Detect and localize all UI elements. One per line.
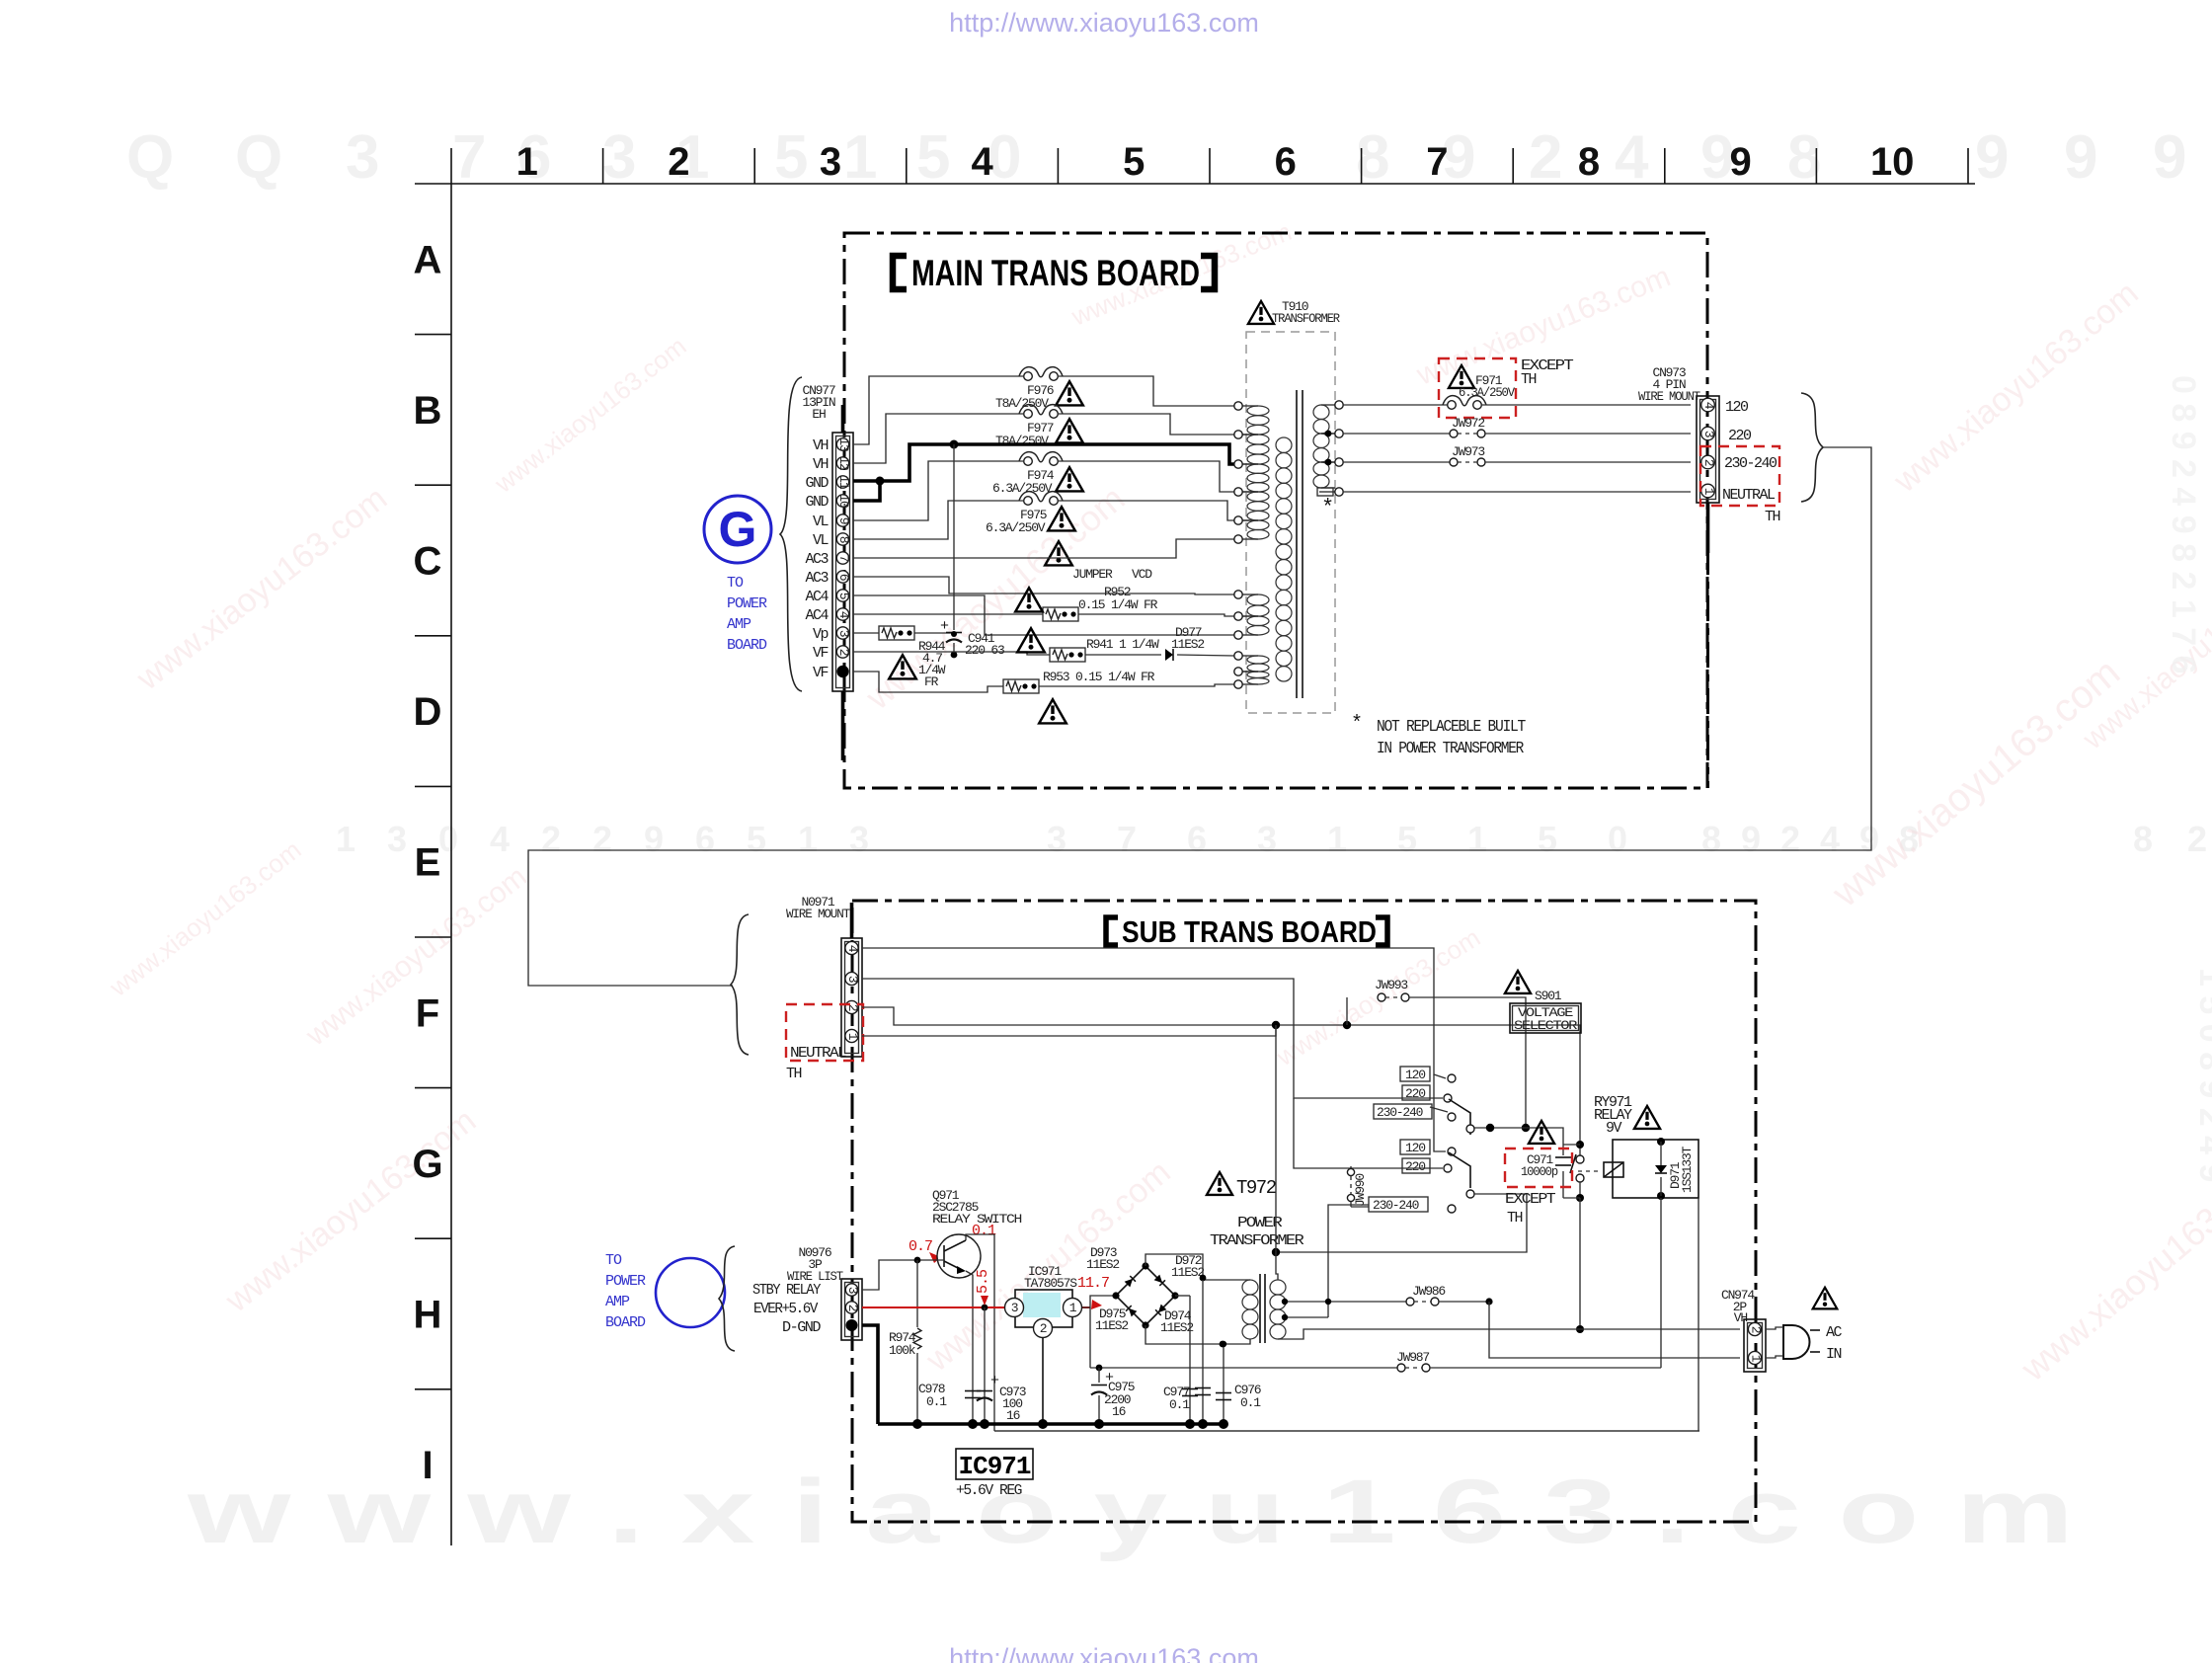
- svg-text:12: 12: [836, 456, 851, 470]
- resistor R941 and diode D977: [853, 652, 1050, 655]
- fuse F976: [1024, 372, 1033, 381]
- svg-text:0.7: 0.7: [908, 1238, 932, 1255]
- svg-text:3: 3: [602, 123, 636, 192]
- svg-text:VL: VL: [813, 532, 829, 549]
- jumper JW972 on 220 line: [1343, 433, 1450, 435]
- wire IC971 pin1 branch down: [1089, 1307, 1091, 1368]
- svg-text:AC4: AC4: [805, 589, 829, 605]
- svg-text:SELECTOR: SELECTOR: [1514, 1018, 1578, 1033]
- fuse F975: [1024, 497, 1033, 506]
- svg-text:120: 120: [1405, 1141, 1425, 1155]
- svg-text:0.15 1/4W FR: 0.15 1/4W FR: [1078, 597, 1158, 612]
- ruler top line: [415, 183, 1975, 185]
- svg-text:C: C: [414, 540, 442, 584]
- svg-text:*: *: [1351, 713, 1363, 736]
- svg-text:AC3: AC3: [805, 551, 829, 568]
- wire IC971 pin1 to bridge: [1082, 1296, 1114, 1307]
- svg-text:GND: GND: [805, 494, 829, 511]
- wire group2 common down: [1276, 1194, 1527, 1252]
- faint vertical digits right edge: [2165, 375, 2202, 673]
- svg-text:IN: IN: [1826, 1346, 1842, 1363]
- svg-text:0: 0: [1608, 819, 1627, 859]
- capacitor C973: [984, 1307, 986, 1424]
- svg-text:AMP: AMP: [605, 1294, 630, 1310]
- svg-text:G: G: [719, 502, 757, 557]
- transformer T910 label: [1248, 301, 1274, 324]
- svg-text:1 5 0 8 9 2 4 9: 1 5 0 8 9 2 4 9: [2192, 968, 2212, 1182]
- watermark pink diagonals: [129, 480, 394, 698]
- svg-text:1: 1: [798, 819, 818, 859]
- svg-text:+5.6V REG: +5.6V REG: [956, 1482, 1022, 1499]
- red wire ever5.6: [862, 1307, 1005, 1308]
- svg-text:JW973: JW973: [1452, 444, 1484, 459]
- svg-text:9: 9: [1729, 140, 1751, 184]
- ruler column ticks: [450, 148, 452, 184]
- svg-text:2: 2: [836, 649, 851, 656]
- svg-text:3: 3: [387, 819, 407, 859]
- relay contact: [1579, 1153, 1581, 1155]
- svg-text:5: 5: [1123, 140, 1145, 184]
- svg-text:JW990: JW990: [1353, 1174, 1368, 1207]
- svg-text:3: 3: [1011, 1301, 1018, 1315]
- wire neutral line: [1343, 491, 1691, 493]
- wire bridge top to T972: [1145, 1254, 1250, 1280]
- svg-text:2: 2: [1040, 1321, 1047, 1336]
- svg-text:9: 9: [836, 517, 851, 524]
- svg-text:3: 3: [845, 1287, 860, 1294]
- wire pin12 to F977 to T910: [853, 414, 1024, 463]
- svg-text:TO: TO: [727, 575, 744, 592]
- svg-text:8: 8: [2133, 819, 2153, 859]
- svg-text:H: H: [414, 1294, 442, 1337]
- node circle to power amp: [656, 1258, 725, 1327]
- svg-text:6: 6: [1275, 140, 1297, 184]
- T910 internal fuse: [1317, 488, 1333, 496]
- svg-text:R941 1 1/4W: R941 1 1/4W: [1086, 637, 1159, 652]
- svg-text:Vp: Vp: [813, 626, 829, 643]
- fuse F971 red box: [1439, 358, 1516, 418]
- svg-text:0.1: 0.1: [926, 1394, 947, 1409]
- svg-text:POWER: POWER: [605, 1273, 646, 1290]
- selector group2 wiper: [1449, 1152, 1470, 1188]
- svg-text:8: 8: [1701, 819, 1721, 859]
- T910 primary left winding groups: [1247, 406, 1269, 416]
- node G to power amp board: [704, 496, 771, 563]
- svg-text:11.7: 11.7: [1077, 1275, 1109, 1292]
- connector CN974 body: [1744, 1319, 1766, 1372]
- wire pin13 to F976 to T910: [853, 376, 1024, 444]
- svg-text:11ES2: 11ES2: [1086, 1257, 1119, 1272]
- wire relay return: [994, 1198, 1698, 1431]
- S901 voltage selector label: [1505, 971, 1531, 993]
- main board right edge bold segment below CN973: [1706, 503, 1709, 788]
- svg-text:VF: VF: [813, 645, 829, 662]
- svg-text:5: 5: [774, 123, 808, 192]
- sub trans board boundary box: [852, 901, 1756, 1522]
- svg-text:STBY RELAY: STBY RELAY: [752, 1282, 821, 1299]
- transistor Q971: [937, 1234, 981, 1278]
- svg-text:11ES2: 11ES2: [1160, 1320, 1193, 1335]
- selector group1 wiper: [1449, 1099, 1470, 1135]
- svg-text:7: 7: [1117, 819, 1137, 859]
- svg-text:VH: VH: [813, 456, 829, 473]
- svg-text:D-GND: D-GND: [782, 1319, 822, 1336]
- svg-text:3: 3: [820, 140, 841, 184]
- svg-text:http://www.xiaoyu163.com: http://www.xiaoyu163.com: [949, 8, 1259, 38]
- fuse F977: [1024, 410, 1033, 419]
- IC971 block label: [956, 1449, 1033, 1479]
- sub board title bracket right: [1376, 917, 1387, 945]
- svg-text:10: 10: [836, 494, 851, 508]
- svg-text:7: 7: [1426, 140, 1448, 184]
- svg-text:NOT REPLACEBLE BUILT: NOT REPLACEBLE BUILT: [1377, 718, 1526, 737]
- svg-text:0 8 9 2 4 9 8 2 1 7 6: 0 8 9 2 4 9 8 2 1 7 6: [2165, 375, 2202, 673]
- svg-text:E: E: [415, 841, 441, 885]
- svg-text:AC3: AC3: [805, 570, 829, 587]
- svg-text:3: 3: [1701, 431, 1716, 437]
- svg-text:4: 4: [971, 140, 993, 184]
- main board title bracket left: [893, 256, 907, 289]
- svg-text:SUB TRANS BOARD: SUB TRANS BOARD: [1122, 914, 1377, 949]
- svg-text:2: 2: [1529, 123, 1562, 192]
- svg-text:http://www.xiaoyu163.com: http://www.xiaoyu163.com: [949, 1643, 1259, 1663]
- connector CN977 pins: [836, 438, 848, 450]
- svg-text:1: 1: [843, 123, 877, 192]
- svg-text:NEUTRAL: NEUTRAL: [1722, 487, 1776, 504]
- svg-text:0.1: 0.1: [1169, 1397, 1190, 1412]
- svg-text:R953 0.15 1/4W FR: R953 0.15 1/4W FR: [1043, 670, 1155, 684]
- svg-text:JUMPER: JUMPER: [1072, 567, 1113, 582]
- svg-text:3: 3: [836, 630, 851, 637]
- wire pin9 to F974 to T910: [853, 461, 1024, 520]
- svg-text:230-240: 230-240: [1373, 1198, 1419, 1213]
- diode D971: [1660, 1142, 1662, 1165]
- wire IC971 pin2 down: [1042, 1338, 1044, 1424]
- svg-text:120: 120: [1405, 1068, 1425, 1082]
- wire pin8 to F975 to T910: [853, 501, 1024, 539]
- jumper JW987: [1090, 1367, 1397, 1369]
- wire main to sub connection: [528, 447, 1871, 986]
- svg-text:B: B: [414, 389, 442, 433]
- svg-text:JW972: JW972: [1452, 416, 1484, 431]
- svg-text:6: 6: [836, 574, 851, 581]
- svg-text:9: 9: [2064, 123, 2097, 192]
- wire JW986 to CN974 pin1: [1489, 1302, 1740, 1358]
- svg-text:TA78057S: TA78057S: [1024, 1276, 1077, 1291]
- svg-text:6: 6: [695, 819, 715, 859]
- CN973 brace: [1801, 393, 1823, 502]
- CN973 red dashed box: [1700, 446, 1779, 506]
- svg-text:220: 220: [1728, 428, 1752, 444]
- svg-text:4: 4: [490, 819, 510, 859]
- selector group2 feeds: [1434, 1074, 1446, 1151]
- svg-text:5: 5: [836, 593, 851, 599]
- svg-text:5: 5: [747, 819, 766, 859]
- svg-text:FR: FR: [924, 674, 939, 689]
- capacitor C976: [1223, 1344, 1224, 1424]
- svg-text:AMP: AMP: [727, 616, 751, 633]
- svg-text:TH: TH: [1765, 509, 1780, 525]
- resistor R974: [916, 1260, 918, 1327]
- svg-text:230-240: 230-240: [1377, 1105, 1423, 1120]
- svg-text:1: 1: [516, 140, 538, 184]
- svg-text:TO: TO: [605, 1252, 622, 1269]
- wire NQ971 pin4 to selector 120: [862, 948, 1446, 1078]
- wire pin7 AC3: [853, 539, 1234, 558]
- thin return line: [994, 1430, 1699, 1432]
- svg-text:IN POWER TRANSFORMER: IN POWER TRANSFORMER: [1377, 740, 1524, 758]
- svg-text:TH: TH: [786, 1066, 802, 1082]
- svg-text:VF: VF: [813, 665, 829, 681]
- svg-text:1: 1: [1327, 819, 1347, 859]
- svg-text:4: 4: [1615, 123, 1649, 192]
- main board left edge bold segments: [841, 405, 845, 433]
- connector CN973 pins: [1701, 398, 1715, 412]
- svg-text:TRANSFORMER: TRANSFORMER: [1210, 1232, 1304, 1249]
- svg-text:100k: 100k: [889, 1343, 916, 1358]
- svg-text:JW993: JW993: [1375, 978, 1407, 992]
- selector group1 contacts: [1448, 1074, 1456, 1082]
- capacitor C975: [1096, 1365, 1103, 1372]
- svg-text:6: 6: [1187, 819, 1207, 859]
- svg-text:*: *: [1321, 496, 1334, 520]
- svg-text:TRANSFORMER: TRANSFORMER: [1272, 311, 1340, 326]
- svg-text:3: 3: [845, 976, 860, 983]
- fuse F974: [1024, 457, 1033, 466]
- svg-text:F: F: [416, 991, 439, 1035]
- jumper JW990: [1350, 1166, 1352, 1168]
- main trans board boundary box: [844, 233, 1707, 788]
- connector NQ971 body: [841, 938, 862, 1057]
- NQ976 brace: [719, 1246, 735, 1351]
- svg-text:11ES2: 11ES2: [1171, 637, 1204, 652]
- svg-text:9V: 9V: [1606, 1120, 1622, 1137]
- wire NQ971 pin2 neutral run: [862, 1007, 1580, 1153]
- resistor R953: [853, 672, 1003, 692]
- svg-text:3: 3: [1047, 819, 1066, 859]
- jumper JW986: [1406, 1298, 1414, 1306]
- capacitor C971 red box: [1563, 1144, 1580, 1146]
- svg-text:EH: EH: [812, 407, 826, 422]
- svg-text:6.3A/250V: 6.3A/250V: [1459, 385, 1515, 400]
- svg-text:230-240: 230-240: [1724, 455, 1777, 472]
- svg-text:10000p: 10000p: [1521, 1164, 1557, 1179]
- svg-text:D: D: [414, 690, 442, 734]
- svg-text:8: 8: [1578, 140, 1600, 184]
- transformer T972: [1207, 1172, 1232, 1195]
- T910 core: [1296, 390, 1298, 698]
- svg-text:A: A: [414, 238, 442, 281]
- svg-text:VL: VL: [813, 514, 829, 530]
- svg-text:VCD: VCD: [1132, 567, 1152, 582]
- T910 inner winding: [1276, 437, 1292, 452]
- svg-text:I: I: [422, 1444, 433, 1487]
- wire group2 230-240 to T972: [1328, 1205, 1369, 1317]
- wire base network: [862, 1260, 944, 1290]
- wire pin5 AC4: [853, 595, 1234, 635]
- svg-text:IC971: IC971: [958, 1452, 1030, 1481]
- svg-text:2: 2: [845, 1305, 860, 1311]
- svg-text:3: 3: [346, 123, 379, 192]
- wire pin6 AC3: [853, 577, 1234, 594]
- svg-text:9: 9: [1741, 819, 1761, 859]
- svg-text:13: 13: [836, 437, 851, 451]
- ground bold rail: [878, 1422, 1224, 1426]
- wire relay to CN974 pin2: [1579, 1198, 1581, 1329]
- svg-text:G: G: [412, 1143, 442, 1186]
- svg-text:Q: Q: [235, 123, 282, 192]
- svg-text:S901: S901: [1535, 989, 1562, 1003]
- svg-text:MAIN TRANS BOARD: MAIN TRANS BOARD: [911, 253, 1200, 293]
- svg-text:8: 8: [836, 536, 851, 543]
- svg-text:11: 11: [836, 475, 851, 490]
- svg-text:16: 16: [1112, 1404, 1126, 1419]
- svg-text:5: 5: [916, 123, 950, 192]
- capacitor C978: [965, 1390, 981, 1392]
- wire JW987 to relay: [1660, 1198, 1662, 1368]
- connector NQ971 pins: [845, 941, 858, 954]
- selector common to relay: [1474, 1128, 1563, 1145]
- svg-text:2: 2: [2187, 819, 2207, 859]
- svg-text:TH: TH: [1507, 1210, 1523, 1227]
- wire bridge right corner: [1175, 1295, 1190, 1297]
- capacitor C977 pair: [1189, 1296, 1191, 1424]
- ruler left line: [450, 184, 452, 1545]
- NQ971 red dashed box neutral: [786, 1004, 863, 1061]
- selector group2 contacts: [1448, 1148, 1456, 1155]
- svg-text:5: 5: [1397, 819, 1417, 859]
- relay coil: [1613, 1140, 1698, 1198]
- svg-text:w w w . x i a o y u 1 6 3 . c: w w w . x i a o y u 1 6 3 . c o m: [187, 1462, 2074, 1562]
- svg-text:11ES2: 11ES2: [1171, 1265, 1204, 1280]
- svg-text:EVER+5.6V: EVER+5.6V: [753, 1301, 818, 1317]
- T910 tap circles right: [1335, 401, 1343, 409]
- resistor R952: [853, 613, 1043, 615]
- svg-text:2: 2: [1701, 459, 1716, 466]
- svg-text:JW986: JW986: [1412, 1284, 1445, 1299]
- ruler row ticks: [415, 334, 451, 336]
- wire emitter to C978: [966, 1271, 973, 1424]
- svg-text:AC: AC: [1826, 1324, 1843, 1341]
- wire collector: [966, 1234, 994, 1431]
- svg-text:9: 9: [644, 819, 664, 859]
- svg-text:9: 9: [1975, 123, 2009, 192]
- svg-text:WIRE MOUNT: WIRE MOUNT: [1638, 389, 1700, 404]
- jumper JW973 on 230-240 line: [1343, 461, 1450, 463]
- connector CN977 body: [832, 433, 853, 691]
- wire bridge bottom to T972: [1145, 1325, 1250, 1344]
- svg-text:BOARD: BOARD: [727, 637, 767, 654]
- svg-text:0: 0: [438, 819, 458, 859]
- sub board title bracket left: [1106, 917, 1118, 945]
- svg-text:WIRE MOUNT: WIRE MOUNT: [786, 907, 850, 921]
- transformer T910 outline: [1246, 332, 1335, 713]
- svg-text:220: 220: [1405, 1159, 1425, 1174]
- svg-text:GND: GND: [805, 475, 829, 492]
- main board title bracket right: [1201, 256, 1215, 289]
- svg-text:6.3A/250V: 6.3A/250V: [986, 520, 1046, 535]
- svg-text:7: 7: [452, 123, 486, 192]
- svg-text:2: 2: [1780, 819, 1800, 859]
- svg-text:1: 1: [1467, 819, 1487, 859]
- capacitor C941: [953, 444, 955, 630]
- svg-text:0.1: 0.1: [1240, 1395, 1261, 1410]
- svg-text:3: 3: [1257, 819, 1277, 859]
- svg-text:Q: Q: [126, 123, 174, 192]
- T972 primary bottom to CN974: [1278, 1329, 1740, 1339]
- svg-text:2: 2: [668, 140, 689, 184]
- NQ971 brace: [731, 914, 749, 1055]
- connector CN977 brace: [780, 377, 802, 691]
- svg-text:220: 220: [1405, 1086, 1425, 1101]
- svg-text:TH: TH: [1521, 371, 1537, 388]
- svg-text:5.5: 5.5: [975, 1269, 991, 1294]
- T972 primary taps: [1284, 1301, 1406, 1303]
- svg-text:3: 3: [849, 819, 869, 859]
- T910 tap circles left: [1234, 402, 1242, 410]
- svg-text:T972: T972: [1236, 1177, 1277, 1199]
- svg-text:POWER: POWER: [727, 595, 767, 612]
- svg-text:2: 2: [592, 819, 612, 859]
- svg-text:VH: VH: [813, 437, 829, 454]
- svg-text:1SS133T: 1SS133T: [1680, 1146, 1695, 1193]
- svg-text:5: 5: [1538, 819, 1557, 859]
- svg-text:10: 10: [1870, 140, 1915, 184]
- svg-text:0.1: 0.1: [972, 1223, 996, 1239]
- svg-text:220 63: 220 63: [965, 643, 1004, 658]
- T972 primary top: [1276, 1025, 1278, 1280]
- bold GND wire pins 11+10 to T910: [853, 444, 1234, 481]
- svg-text:VH: VH: [1734, 1310, 1748, 1325]
- AC IN plug: [1813, 1288, 1838, 1309]
- svg-text:120: 120: [1725, 399, 1749, 416]
- jumper JW993: [1346, 997, 1348, 1025]
- svg-text:EXCEPT: EXCEPT: [1505, 1191, 1556, 1208]
- svg-text:2: 2: [1749, 1326, 1764, 1333]
- svg-text:2: 2: [541, 819, 561, 859]
- T910 secondary right winding: [1313, 405, 1329, 419]
- svg-text:4: 4: [1820, 819, 1840, 859]
- selector group1 labels: [1400, 1067, 1430, 1081]
- selector group2 labels: [1400, 1140, 1430, 1154]
- svg-text:NEUTRAL: NEUTRAL: [790, 1045, 847, 1062]
- connector NQ976 body: [841, 1279, 862, 1340]
- svg-text:1: 1: [336, 819, 355, 859]
- svg-text:9: 9: [2153, 123, 2186, 192]
- wire NQ971 pin1: [862, 1025, 1276, 1036]
- svg-text:7: 7: [836, 555, 851, 562]
- wire NQ971 pin3 to selector 220: [862, 979, 1443, 1098]
- svg-text:JW987: JW987: [1396, 1350, 1429, 1365]
- svg-text:11ES2: 11ES2: [1095, 1318, 1128, 1333]
- resistor R944: [853, 632, 879, 634]
- wire 120 line with F971: [1343, 404, 1450, 406]
- svg-text:16: 16: [1006, 1408, 1020, 1423]
- bridge rectifier D972-D975: [1116, 1266, 1175, 1325]
- capacitor mid: [1202, 1280, 1204, 1424]
- svg-text:BOARD: BOARD: [605, 1314, 646, 1331]
- svg-text:AC4: AC4: [805, 607, 829, 624]
- connector CN973 body: [1697, 396, 1719, 503]
